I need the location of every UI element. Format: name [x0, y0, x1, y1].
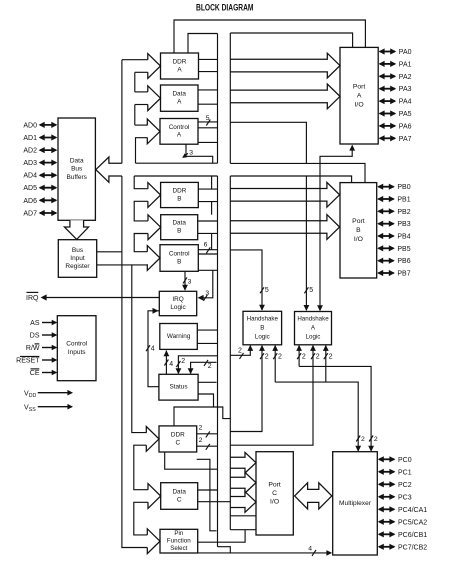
VDD arrow — [38, 392, 72, 394]
pin DS input arrow — [42, 334, 56, 336]
svg-text:AS: AS — [30, 320, 40, 327]
VSS arrow — [38, 406, 72, 408]
2-bit wire into Handshake B bottom riser 3 with slash and label 2 — [274, 346, 276, 383]
DDR C output bus of 2 lower with slash and label — [197, 445, 218, 447]
svg-text:PB4: PB4 — [397, 234, 410, 241]
Control A register — [160, 119, 198, 145]
wire outer top bus DDR A to Port A top — [174, 20, 365, 53]
Data C output upper — [198, 489, 218, 491]
DDR B output upper — [198, 188, 217, 190]
handshake A feed vertical 2 — [319, 176, 321, 311]
pin AD6 bidirectional arrow — [40, 199, 56, 201]
wire staircase branch down into DDR C top — [174, 407, 214, 426]
pin PB2 bidirectional arrow — [378, 210, 393, 212]
2-bit wire Handshake B to Multiplexer top with slash and label 2 — [275, 382, 358, 451]
port A I/O — [340, 47, 378, 144]
Control A 3-bit wire with arrowhead and label 3 — [186, 144, 213, 163]
feeder vertical into DDR B arrow — [134, 176, 148, 189]
svg-text:2: 2 — [302, 354, 306, 361]
4-bit wire from Pin Function Select to Multiplexer with slash, label 4 and arrowhead — [198, 552, 332, 554]
pin PC6/CB1 bidirectional arrow — [379, 533, 394, 535]
2-bit wire rail 1 down into Status top second with slash and label 2 — [191, 362, 217, 373]
bus arrow into Data A — [148, 86, 161, 111]
bus arrow Data Bus Buffers down into Bus Input Register — [64, 220, 88, 239]
svg-text:PC6/CB1: PC6/CB1 — [398, 532, 427, 539]
port B I/O — [340, 183, 377, 278]
2-bit wire into Handshake A bottom riser 1 with slash and label 2 — [298, 346, 300, 367]
bus arrow into Port A (upper) — [230, 53, 340, 78]
Data A output upper — [198, 89, 218, 91]
main bus vertical below buffers arrow — [122, 176, 147, 548]
bus arrow into Data Bus Buffers (left-pointing) — [96, 157, 122, 182]
DDR A arrow shaft bottom to feeder — [135, 71, 148, 73]
Control A arrow shaft bottom to bus line — [136, 138, 148, 164]
DDR C register — [159, 426, 197, 452]
pin PC0 bidirectional arrow — [379, 458, 394, 460]
svg-text:2: 2 — [238, 348, 242, 355]
4-bit wire Status up into Warning with slash and label 4 — [165, 351, 167, 375]
pin PB4 bidirectional arrow — [378, 235, 393, 237]
rail 2 upper segment — [229, 33, 231, 163]
rail 2 lower segment — [229, 176, 231, 530]
IRQ logic — [159, 291, 196, 315]
svg-text:2: 2 — [316, 354, 320, 361]
svg-text:PC2: PC2 — [398, 482, 412, 489]
wire DDR A top to rail 1 — [188, 34, 218, 54]
svg-text:PB0: PB0 — [397, 184, 410, 191]
svg-text:DS: DS — [30, 333, 40, 340]
stub DDR B output to Data B top — [211, 202, 213, 215]
pin AD0 bidirectional arrow — [40, 124, 56, 126]
Data C register — [161, 483, 198, 510]
Control A arrow shaft top feed — [135, 124, 148, 126]
handshake A feed vertical 1 — [305, 176, 307, 310]
rail 1 bottom jog — [218, 547, 231, 553]
svg-text:PA4: PA4 — [399, 99, 412, 106]
stub bus line to DDR B output — [211, 176, 213, 189]
svg-text:AD1: AD1 — [23, 135, 37, 142]
svg-text:PA0: PA0 — [399, 49, 412, 56]
data bus buffers — [58, 118, 95, 220]
svg-text:PA7: PA7 — [399, 136, 412, 143]
svg-text:BLOCK DIAGRAM: BLOCK DIAGRAM — [196, 2, 254, 12]
svg-text:PA6: PA6 — [399, 123, 412, 130]
svg-text:4: 4 — [151, 346, 155, 353]
svg-text:2: 2 — [374, 436, 378, 443]
svg-text:PC5/CA2: PC5/CA2 — [398, 519, 427, 526]
svg-text:PA3: PA3 — [399, 86, 412, 93]
svg-text:2: 2 — [361, 436, 365, 443]
svg-text:AD4: AD4 — [23, 173, 37, 180]
svg-text:CE: CE — [30, 370, 40, 377]
Warning output upper — [197, 329, 217, 331]
port C I/O — [256, 452, 293, 535]
svg-text:4: 4 — [169, 361, 173, 368]
wire rail 2 top to Port A top — [230, 33, 352, 47]
pin AD2 bidirectional arrow — [40, 149, 56, 151]
DDR B register — [161, 182, 199, 207]
svg-text:DD: DD — [29, 393, 37, 399]
DDR C arrow shaft bottom to feeder — [134, 445, 148, 490]
svg-text:ControlInputs: ControlInputs — [66, 341, 88, 356]
bus arrow into Data B — [148, 215, 161, 240]
svg-text:PA2: PA2 — [399, 74, 412, 81]
svg-text:AD7: AD7 — [23, 211, 37, 218]
zigzag feeder Data A to Control A — [135, 104, 148, 106]
Control B register — [160, 245, 198, 272]
Control B 3-bit wire down into IRQ Logic top with slash, arrowhead and label 3 — [184, 271, 186, 290]
DDR A arrow shaft top feed — [122, 59, 148, 61]
Status output upper — [198, 381, 216, 383]
pin PB7 bidirectional arrow — [378, 272, 393, 274]
4-bit wire loop IRQ Logic to Status with slash and label 4 — [148, 311, 159, 387]
Control A output bottom — [198, 141, 218, 143]
Control B arrow shaft bottom / BIR line to C feeder — [132, 265, 148, 433]
svg-text:3: 3 — [189, 150, 193, 157]
wire from Port B bus up into Port A bottom with arrowhead — [320, 146, 352, 176]
DDR B output lower — [198, 201, 217, 203]
bus arrow into Port B (upper) — [230, 182, 339, 207]
svg-text:PB3: PB3 — [397, 221, 410, 228]
handshake B logic — [243, 311, 282, 345]
svg-text:6: 6 — [204, 242, 208, 249]
svg-text:3: 3 — [205, 290, 209, 297]
pin CE input arrow — [42, 372, 56, 374]
svg-text:PA5: PA5 — [399, 111, 412, 118]
wire rail 2 to Handshake B top with slash and label 5 — [230, 250, 262, 310]
pin PB5 bidirectional arrow — [378, 247, 393, 249]
warning register — [160, 324, 198, 350]
pin PA0 bidirectional arrow — [380, 51, 395, 53]
svg-text:4: 4 — [308, 545, 312, 552]
bus input register output line 2 — [97, 264, 132, 266]
DDR A output upper — [199, 58, 218, 60]
bus line A group to rail 1 — [136, 162, 218, 164]
pin AS input arrow — [42, 322, 56, 324]
pin PB3 bidirectional arrow — [378, 223, 393, 225]
2-bit wire rail 1 down into Status top with slash and label 2 — [178, 356, 217, 374]
svg-text:PB1: PB1 — [397, 197, 410, 204]
bus line to Port B top outer — [230, 163, 365, 182]
Data B output upper — [198, 220, 218, 222]
bus line to Port B top inner — [230, 176, 351, 183]
pin PC4/CA1 bidirectional arrow — [379, 508, 394, 510]
DDR B arrow shaft bottom to feeder — [134, 201, 148, 221]
svg-text:5: 5 — [206, 115, 210, 122]
Control B output bus of 6 with slash and label — [198, 249, 217, 251]
svg-text:2: 2 — [181, 358, 185, 365]
svg-text:AD0: AD0 — [23, 122, 37, 129]
pin PA2 bidirectional arrow — [380, 75, 395, 77]
pin PB6 bidirectional arrow — [378, 260, 393, 262]
pin RESET input arrow — [42, 359, 56, 361]
multiplexer — [333, 452, 378, 555]
svg-text:2: 2 — [265, 354, 269, 361]
bus arrow into Port A (lower) — [230, 84, 340, 109]
Control A output bus of 5 with slash and label — [198, 121, 218, 123]
bus arrow into Port B (lower) — [230, 215, 339, 240]
svg-text:Multiplexer: Multiplexer — [339, 500, 372, 507]
bus arrow into DDR C — [146, 427, 159, 452]
bus line B group from feeder to rail 1 — [134, 175, 217, 177]
bus input register output line 1 — [97, 251, 122, 253]
pin PA6 bidirectional arrow — [380, 125, 395, 127]
svg-text:2: 2 — [329, 354, 333, 361]
2-bit wire rail 2 loop into Handshake B bottom riser 2 with slash and label 2 — [230, 346, 262, 432]
svg-text:Warning: Warning — [167, 333, 191, 340]
Data C arrow shaft bottom to feeder — [134, 502, 148, 535]
pin AD4 bidirectional arrow — [40, 174, 56, 176]
bus arrow into Control B — [147, 246, 160, 271]
bus arrow into Control A — [147, 119, 160, 144]
DDR C bottom output route — [165, 452, 218, 469]
svg-text:AD3: AD3 — [23, 160, 37, 167]
bus arrow into Pin Function Select — [147, 529, 160, 554]
Data B arrow shaft bottom to feeder — [134, 234, 148, 252]
svg-text:2: 2 — [278, 354, 282, 361]
Control B output mid — [198, 253, 217, 255]
svg-text:3: 3 — [188, 278, 192, 285]
svg-text:2: 2 — [199, 424, 203, 431]
rail 1 upper segment — [217, 34, 219, 164]
feeder vertical Data A to Control A — [134, 105, 136, 126]
pin PC5/CA2 bidirectional arrow — [379, 521, 394, 523]
bus arrow into DDR A — [148, 54, 161, 79]
bus arrow into Port C (second) — [230, 472, 256, 493]
pin PA1 bidirectional arrow — [380, 63, 395, 65]
pin AD5 bidirectional arrow — [40, 187, 56, 189]
DDR A register — [161, 53, 199, 79]
2-bit wire rail 2 loop into Handshake A bottom riser 2 with slash and label 2 — [230, 346, 313, 446]
Control B output bottom — [198, 269, 217, 271]
svg-text:2: 2 — [208, 363, 212, 370]
Data A arrow shaft top feed — [135, 91, 148, 93]
status register — [159, 374, 198, 400]
wire rail 2 into Port C left lower — [230, 529, 256, 531]
rail 1 lower segment — [217, 176, 219, 547]
stub Data B output to Control B — [211, 233, 213, 249]
svg-text:PC0: PC0 — [398, 457, 412, 464]
svg-text:5: 5 — [265, 287, 269, 294]
2-bit wire rail 2 into Handshake B bottom riser 1 with slash and label 2 — [230, 346, 250, 356]
pin R/W input arrow — [42, 347, 56, 349]
svg-text:R/W: R/W — [26, 345, 40, 352]
pin PA3 bidirectional arrow — [380, 88, 395, 90]
pin PA7 bidirectional arrow — [380, 137, 395, 139]
Status output lower staircase — [198, 394, 230, 419]
pin AD1 bidirectional arrow — [40, 137, 56, 139]
bus arrow into Port C (third) — [230, 492, 256, 513]
bus arrow into Port C (first) — [230, 452, 256, 473]
svg-text:PC7/CB2: PC7/CB2 — [398, 544, 427, 551]
pin AD7 bidirectional arrow — [40, 212, 56, 214]
svg-text:PB6: PB6 — [397, 258, 410, 265]
svg-text:PB2: PB2 — [397, 209, 410, 216]
svg-text:PB7: PB7 — [397, 271, 410, 278]
pin PC3 bidirectional arrow — [379, 496, 394, 498]
handshake A logic — [295, 312, 332, 345]
Data C output lower to rail 2 — [198, 501, 231, 503]
pin PC7/CB2 bidirectional arrow — [379, 546, 394, 548]
DDR C output bus of 2 upper with slash and label — [197, 433, 218, 435]
pin function select — [160, 529, 198, 553]
pin PB0 bidirectional arrow — [378, 186, 393, 188]
wire rail 2 to handshake feed vertical — [230, 122, 306, 163]
svg-text:PA1: PA1 — [399, 61, 412, 68]
2-bit wire into Handshake A bottom riser 3 with slash and label 2 — [325, 346, 327, 383]
3-bit wire branch into IRQ Logic right edge with arrowhead and label 3 — [199, 270, 213, 298]
svg-text:IRQ: IRQ — [26, 295, 39, 302]
pin PA4 bidirectional arrow — [380, 100, 395, 102]
2-bit wire Handshake A to Multiplexer top with slash and label 2 — [299, 366, 371, 451]
pin AD3 bidirectional arrow — [40, 162, 56, 164]
svg-text:RESET: RESET — [16, 358, 40, 365]
pin PC2 bidirectional arrow — [379, 483, 394, 485]
Warning output lower — [197, 342, 217, 344]
svg-text:AD6: AD6 — [23, 198, 37, 205]
DDR A output lower — [199, 71, 218, 73]
svg-text:Status: Status — [169, 384, 187, 391]
svg-text:AD5: AD5 — [23, 185, 37, 192]
control inputs — [57, 316, 96, 381]
bus arrow into DDR B — [148, 183, 161, 208]
bus input register — [58, 240, 96, 278]
main bus vertical from DDR A shaft to buffers arrow — [121, 60, 123, 164]
Pin Function Select output jog up to Port C line — [198, 530, 245, 543]
zigzag feeder DDR A to Data A — [134, 72, 136, 92]
pin PA5 bidirectional arrow — [380, 113, 395, 115]
bidirectional bus arrow Port C to Multiplexer — [295, 483, 332, 509]
Data A output lower — [198, 103, 218, 105]
pin IRQ output line with left arrowhead — [46, 297, 159, 299]
pin PB1 bidirectional arrow — [378, 198, 393, 200]
svg-text:PC3: PC3 — [398, 494, 412, 501]
wire rail 2 into Port C left upper — [230, 515, 256, 517]
Control A output lower — [198, 127, 218, 129]
svg-text:PC1: PC1 — [398, 469, 412, 476]
svg-text:SS: SS — [29, 407, 36, 413]
Data B output lower — [198, 232, 218, 234]
svg-text:PB5: PB5 — [397, 246, 410, 253]
svg-text:AD2: AD2 — [23, 148, 37, 155]
wire DDR C area bypass down to rail 1 — [197, 459, 217, 531]
svg-text:PC4/CA1: PC4/CA1 — [398, 507, 427, 514]
svg-text:2: 2 — [199, 437, 203, 444]
pin PC1 bidirectional arrow — [379, 471, 394, 473]
Data A register — [161, 85, 199, 111]
Data B register — [161, 215, 198, 240]
svg-text:5: 5 — [309, 287, 313, 294]
bus arrow into Data C — [148, 484, 161, 509]
